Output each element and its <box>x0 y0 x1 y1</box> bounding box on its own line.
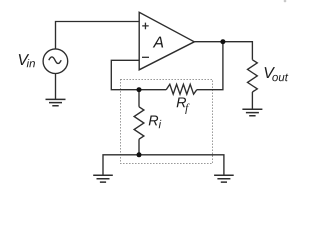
ground (below Vin) <box>46 99 66 105</box>
wire (Rf right up to output node) <box>197 42 223 90</box>
node output junction <box>220 39 225 44</box>
op-amp minus input marker <box>142 56 149 58</box>
node ground junction <box>137 152 142 157</box>
stray mark (top edge artifact) <box>284 0 287 2</box>
resistor (output load) <box>248 60 258 92</box>
ground (bottom right) <box>214 175 234 182</box>
label Ri <box>149 116 162 129</box>
label Vout <box>265 67 289 81</box>
wire (load resistor bottom to ground) <box>251 92 253 109</box>
wire (Vin top to op-amp + input) <box>56 22 140 49</box>
label Rf <box>177 97 190 114</box>
wire (Ri bottom to ground bus) <box>138 139 140 155</box>
label A (op-amp gain) <box>153 37 163 48</box>
ground (bottom left) <box>93 175 113 182</box>
ground (below load resistor) <box>242 109 262 116</box>
label Vin <box>19 54 35 67</box>
wire (Vin bottom to ground) <box>55 74 57 99</box>
resistor Ri <box>134 107 144 139</box>
node feedback junction <box>137 87 142 92</box>
wire (op-amp - input to Rf left) <box>111 60 166 89</box>
wire (op-amp output to load resistor top) <box>194 42 252 60</box>
wire (ground bus with end drops) <box>103 155 224 175</box>
dashed box (feedback network) <box>121 80 213 164</box>
voltage source Vin <box>43 49 68 74</box>
op-amp plus input marker <box>142 23 149 30</box>
op-amp A <box>139 12 194 70</box>
resistor Rf <box>166 84 197 94</box>
wire (feedback node down to Ri top) <box>138 90 140 107</box>
